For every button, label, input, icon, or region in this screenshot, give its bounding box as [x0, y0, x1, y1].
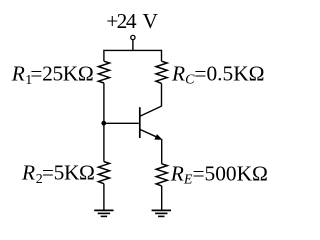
wire: RE to ground [161, 186, 163, 210]
svg-text:RC=0.5KΩ: RC=0.5KΩ [171, 61, 265, 87]
svg-text:R1=25KΩ: R1=25KΩ [11, 62, 94, 88]
resistor RC [156, 61, 167, 83]
wire: emitter to RE [161, 139, 163, 164]
ground (R2) [94, 210, 113, 216]
wire: R2 to ground [103, 184, 105, 211]
wire: top rail [104, 49, 162, 51]
resistor R2 [98, 162, 109, 184]
wire: terminal to top rail [132, 40, 134, 51]
wire: R1 to base node to R2 [103, 83, 105, 162]
resistor R1 [98, 61, 109, 83]
svg-text:R2=5KΩ: R2=5KΩ [21, 161, 95, 187]
svg-text:+24V: +24V [106, 9, 158, 33]
wire: collector to RC [161, 83, 163, 106]
transistor Q1 (NPN) [140, 106, 162, 139]
wire: top rail down to R1 [103, 50, 105, 62]
supply terminal (open circle) [131, 35, 135, 39]
resistor RE [156, 164, 167, 186]
wire: base lead [104, 122, 139, 124]
ground (emitter) [152, 210, 171, 216]
node: base junction dot [101, 121, 106, 126]
wire: RC to top rail [161, 50, 163, 62]
